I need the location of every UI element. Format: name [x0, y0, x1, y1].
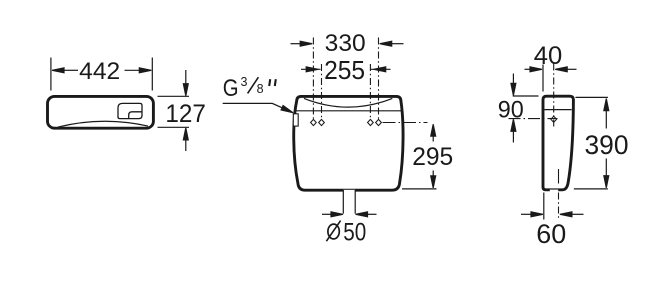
- dim 127 bottom extension line: [158, 126, 190, 128]
- svg-text:255: 255: [324, 57, 365, 85]
- side hole horizontal centerline: [509, 118, 558, 120]
- svg-text:295: 295: [412, 143, 453, 171]
- dim 90 bottom arrow (up): [511, 119, 516, 131]
- svg-text:40: 40: [534, 42, 563, 70]
- svg-text:8: 8: [257, 82, 264, 96]
- dim o50 left arrow: [331, 212, 343, 217]
- centerline outer-left hole: [312, 38, 314, 120]
- svg-text:90: 90: [498, 97, 524, 124]
- svg-text:390: 390: [585, 130, 629, 160]
- G3/8 inlet slot: [293, 114, 298, 126]
- hole centerline extending right: [383, 122, 428, 124]
- side outlet gap: [550, 190, 558, 193]
- dim 390 bottom arrow (down): [604, 176, 609, 188]
- side lid joint line: [544, 109, 571, 111]
- hole diamond outer-right: [376, 119, 382, 125]
- dim 255 right arrow: [374, 67, 386, 72]
- svg-text:G: G: [223, 75, 239, 102]
- G3/8 inch marks: [269, 79, 270, 86]
- cistern front outline: [294, 96, 403, 190]
- dim 442 right arrow: [139, 68, 151, 73]
- svg-text:60: 60: [536, 219, 566, 249]
- svg-text:442: 442: [79, 58, 120, 85]
- dim 90 top arrow (down): [511, 83, 516, 95]
- cistern side outline: [543, 96, 573, 190]
- push-button outline (top view): [118, 103, 142, 118]
- centerline inner-left hole: [321, 64, 323, 119]
- side outlet centerline (solid segment): [558, 169, 560, 184]
- hole diamond inner-right: [368, 119, 374, 125]
- side outlet centerline (below): [558, 193, 560, 220]
- outlet pipe right line: [354, 190, 356, 214]
- svg-text:50: 50: [343, 219, 366, 247]
- lid joint line: [296, 110, 403, 112]
- dim o50 text: diameter symbol: [328, 224, 339, 239]
- hole diamond outer-left: [311, 119, 317, 125]
- G3/8 leader line: [223, 103, 285, 109]
- dim 127 bottom arrow (up): [183, 128, 188, 140]
- dim o50 right arrow: [356, 212, 368, 217]
- lid top curve: [304, 98, 392, 107]
- dim 442 left extension line: [50, 58, 52, 91]
- centerline inner-right hole: [369, 64, 371, 119]
- dim 127 top arrow (down): [183, 84, 188, 96]
- dim 255 left arrow: [306, 67, 318, 72]
- cistern lid outline (top view): [48, 96, 154, 128]
- dim 442 left arrow: [52, 68, 64, 73]
- dim 390 top arrow (up): [604, 99, 609, 111]
- svg-text:3: 3: [241, 75, 248, 89]
- hole diamond inner-left: [319, 119, 325, 125]
- side hole vertical centerline: [553, 64, 555, 127]
- dim 442 right extension line: [151, 58, 153, 91]
- dim 330 left arrow: [300, 41, 312, 46]
- dim 295 bottom arrow (down): [431, 176, 436, 188]
- dim 60 left arrow: [531, 212, 543, 217]
- dim 330 right arrow: [380, 41, 392, 46]
- lid front lip curve: [58, 121, 148, 127]
- svg-text:330: 330: [325, 30, 366, 57]
- dim 295 bottom extension line: [402, 188, 437, 190]
- dim 295 top arrow (up): [431, 124, 436, 136]
- dim 40 left extension line: [542, 65, 544, 92]
- dim 40 right arrow: [555, 67, 567, 72]
- dim 90 top extension line: [513, 95, 539, 97]
- dim 60 right arrow: [560, 212, 572, 217]
- push-button split curve: [129, 112, 142, 119]
- dim 40 left arrow: [530, 67, 542, 72]
- dim 60 left extension line: [543, 193, 545, 220]
- outlet opening gap: [343, 190, 355, 194]
- G3/8 leader arrowhead: [281, 106, 293, 113]
- centerline outer-right hole: [378, 38, 380, 120]
- outlet pipe left line: [342, 190, 344, 214]
- dim 390 top extension line: [576, 96, 608, 98]
- dim 390 bottom extension line: [574, 188, 608, 190]
- dim 127 top extension line: [158, 95, 190, 97]
- side hole diamond: [551, 116, 557, 122]
- svg-text:127: 127: [165, 100, 206, 128]
